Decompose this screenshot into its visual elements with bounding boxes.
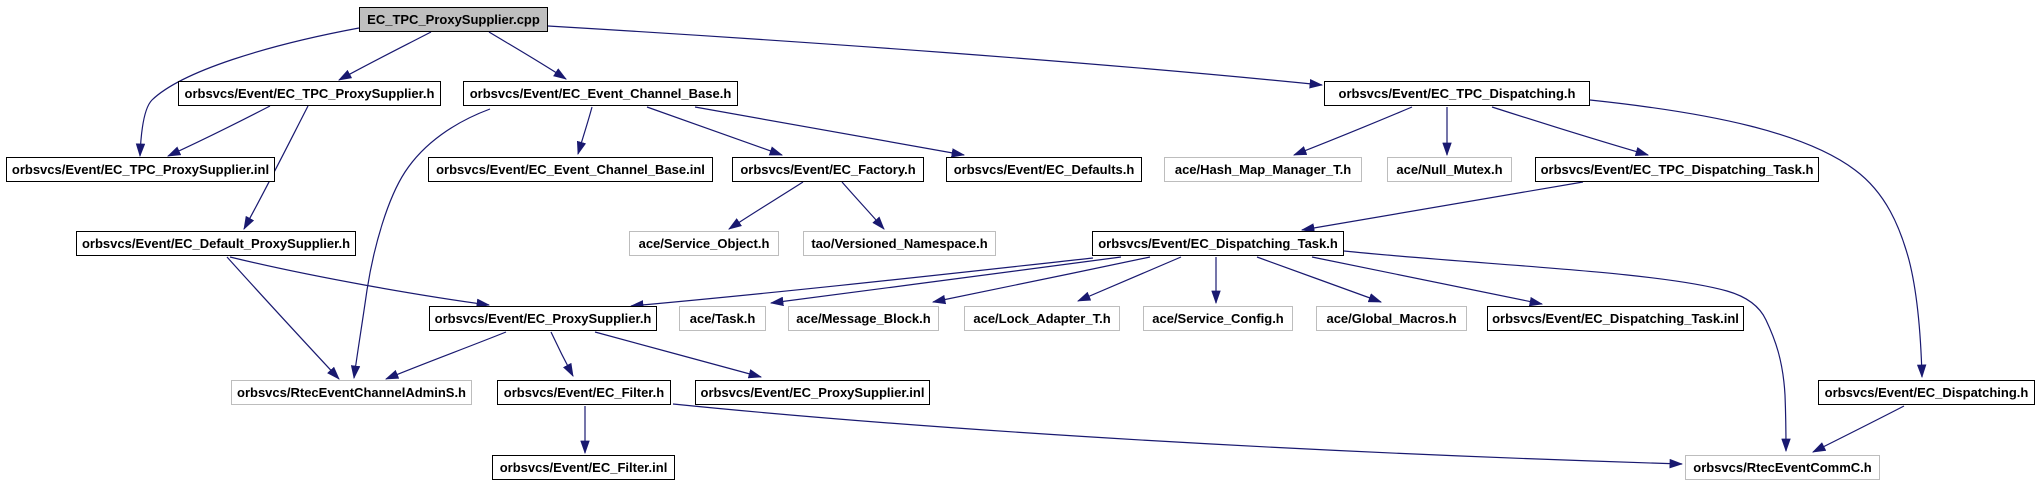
node orbsvcs/Event/EC_Defaults.h	[946, 157, 1142, 182]
wire edge EC_Filter.h->RtecEventCommC.h	[673, 404, 1682, 464]
node orbsvcs/Event/EC_ProxySupplier.inl	[695, 380, 930, 405]
node ace/Task.h	[679, 306, 766, 331]
node orbsvcs/RtecEventChannelAdminS.h	[231, 380, 472, 405]
wire edge EC_TPC_Dispatching.h->EC_Dispatching.h	[1590, 100, 1922, 377]
node ace/Message_Block.h	[788, 306, 939, 331]
node orbsvcs/Event/EC_Filter.inl	[492, 455, 675, 480]
node orbsvcs/Event/EC_Default_ProxySupplier.h	[76, 231, 356, 256]
wire edge EC_ProxySupplier.h->RtecEventChannelAdminS.h	[386, 332, 506, 379]
wire edge EC_TPC_ProxySupplier.cpp->EC_TPC_ProxySupplier.inl	[140, 28, 359, 156]
node orbsvcs/Event/EC_Dispatching_Task.h	[1092, 231, 1344, 256]
node orbsvcs/Event/EC_Dispatching_Task.inl	[1487, 306, 1744, 331]
wire edge EC_Event_Channel_Base.h->EC_Factory.h	[647, 107, 782, 155]
wire edge EC_Filter.h->EC_Filter.inl	[584, 406, 586, 453]
wire edge EC_TPC_ProxySupplier.h->EC_Default_ProxySupplier.h	[244, 106, 308, 229]
node orbsvcs/Event/EC_Filter.h	[497, 380, 671, 405]
wire edge EC_Dispatching_Task.h->Service_Config.h	[1215, 257, 1217, 303]
node tao/Versioned_Namespace.h	[803, 231, 996, 256]
wire edge EC_Dispatching_Task.h->RtecEventCommC.h	[1344, 251, 1786, 451]
wire edge EC_Factory.h->Service_Object.h	[729, 182, 803, 229]
wire edge EC_Dispatching_Task.h->Task.h	[771, 257, 1121, 303]
node orbsvcs/Event/EC_TPC_Dispatching.h	[1324, 81, 1590, 106]
wire edge EC_ProxySupplier.h->EC_ProxySupplier.inl	[595, 332, 761, 377]
node orbsvcs/Event/EC_Dispatching.h	[1818, 380, 2035, 405]
wire edge EC_TPC_Dispatching_Task.h->EC_Dispatching_Task.h	[1302, 182, 1583, 230]
node ace/Lock_Adapter_T.h	[964, 306, 1120, 331]
node orbsvcs/Event/EC_ProxySupplier.h	[429, 306, 657, 331]
node orbsvcs/Event/EC_Event_Channel_Base.h	[463, 81, 738, 106]
wire edge EC_Default_ProxySupplier.h->RtecEventChannelAdminS.h	[227, 257, 339, 379]
wire edge EC_TPC_ProxySupplier.cpp->EC_Event_Channel_Base.h	[489, 32, 566, 79]
wire edge EC_Event_Channel_Base.h->EC_Event_Channel_Base.inl	[578, 107, 592, 154]
node ace/Hash_Map_Manager_T.h	[1164, 157, 1362, 182]
wire edge EC_Dispatching_Task.h->EC_Dispatching_Task.inl	[1312, 257, 1542, 304]
node orbsvcs/Event/EC_Event_Channel_Base.inl	[428, 157, 713, 182]
node orbsvcs/Event/EC_TPC_ProxySupplier.inl	[6, 157, 275, 182]
wire edge EC_ProxySupplier.h->EC_Filter.h	[551, 332, 573, 376]
node orbsvcs/Event/EC_TPC_ProxySupplier.h	[178, 81, 441, 106]
wire edge EC_TPC_ProxySupplier.h->EC_TPC_ProxySupplier.inl	[168, 106, 270, 156]
node orbsvcs/Event/EC_TPC_Dispatching_Task.h	[1535, 157, 1819, 182]
wire edge EC_Dispatching.h->RtecEventCommC.h	[1813, 406, 1904, 452]
node ace/Global_Macros.h	[1316, 306, 1467, 331]
wire edge EC_Dispatching_Task.h->Message_Block.h	[933, 257, 1150, 302]
node ace/Null_Mutex.h	[1387, 157, 1512, 182]
wire edge EC_Default_ProxySupplier.h->EC_ProxySupplier.h	[230, 257, 489, 305]
wire edge EC_Dispatching_Task.h->Global_Macros.h	[1257, 257, 1381, 302]
node ace/Service_Config.h	[1143, 306, 1293, 331]
node EC_TPC_ProxySupplier.cpp (root)	[359, 7, 548, 32]
wire edge EC_Dispatching_Task.h->Lock_Adapter_T.h	[1078, 257, 1181, 301]
wire edge EC_TPC_ProxySupplier.cpp->EC_TPC_Dispatching.h	[548, 26, 1322, 85]
wire edge EC_TPC_Dispatching.h->Hash_Map_Manager_T.h	[1294, 107, 1412, 155]
wire edge EC_TPC_ProxySupplier.cpp->EC_TPC_ProxySupplier.h	[339, 32, 431, 80]
wire edge EC_Event_Channel_Base.h->EC_Defaults.h	[695, 107, 964, 155]
node ace/Service_Object.h	[629, 231, 779, 256]
wire edge EC_Dispatching_Task.h->EC_ProxySupplier.h	[631, 258, 1093, 306]
node orbsvcs/Event/EC_Factory.h	[732, 157, 924, 182]
wire edge EC_TPC_Dispatching.h->Null_Mutex.h	[1446, 107, 1448, 155]
wire edge EC_Event_Channel_Base.h->RtecEventChannelAdminS.h	[354, 109, 490, 378]
node orbsvcs/RtecEventCommC.h	[1685, 455, 1880, 480]
wire edge EC_TPC_Dispatching.h->EC_TPC_Dispatching_Task.h	[1492, 107, 1648, 155]
wire edge EC_Factory.h->Versioned_Namespace.h	[842, 182, 884, 229]
